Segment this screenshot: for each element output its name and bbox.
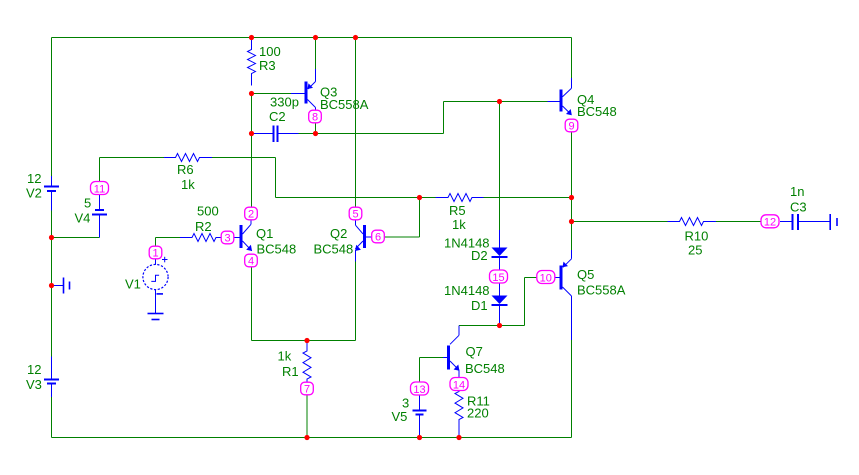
wire C2 row [299,133,444,135]
junction dot V2 bottom [49,235,54,240]
wire R6 row left [100,157,165,159]
svg-text:3: 3 [224,233,230,245]
resistor R10 [668,218,717,226]
node 5 [349,207,362,220]
junction dot R1 top [304,338,309,343]
node 12 [761,215,779,228]
wire Q5 collector to bottom rail [571,340,573,438]
resistor R5 [436,194,484,202]
wire D2 feed column [499,102,501,231]
wire Q2 emitter down [355,262,357,341]
svg-text:V5: V5 [392,409,408,424]
svg-text:1k: 1k [278,349,292,364]
node 9 [565,119,578,132]
node 1 [149,246,162,259]
svg-text:4: 4 [248,256,254,268]
wire Q4 emitter to Q5 [571,132,573,198]
node 13 [411,382,429,395]
wire Q7 collector row [459,325,525,327]
svg-text:5: 5 [352,209,358,221]
wire bottom rail [52,437,572,439]
terminal pin right [830,214,837,230]
svg-text:12: 12 [764,217,776,229]
junction dot V5 bottom [417,435,422,440]
diode D1 [492,283,508,326]
svg-text:V4: V4 [75,211,91,226]
ground [148,314,164,320]
resistor R2 [180,234,221,242]
node 11 [91,182,109,195]
wire R1 to bottom rail [306,395,308,438]
svg-text:10: 10 [540,272,552,284]
wire Q3 emitter stub [315,38,317,70]
node 14 [450,378,468,391]
svg-text:R1: R1 [282,364,299,379]
svg-text:BC548: BC548 [577,104,617,119]
wire Q1 emitter down [251,267,253,341]
wire R6 to R5 link [275,158,277,198]
node 10 [537,271,555,284]
junction dot R11 bottom [456,435,461,440]
svg-text:R6: R6 [177,162,194,177]
svg-text:R5: R5 [449,203,466,218]
wire V2 to V4 link [52,237,100,239]
wire node 10 stub [525,277,539,279]
svg-text:8: 8 [312,112,318,124]
wire Q3 base branch [252,93,292,95]
junction dot top Q2 column [353,35,358,40]
svg-text:12: 12 [27,171,41,186]
terminal pin left [54,278,70,294]
capacitor C2 [254,126,299,143]
wire Q5 emitter feed [571,198,573,251]
svg-text:Q5: Q5 [577,267,594,282]
svg-text:100: 100 [259,44,281,59]
svg-text:220: 220 [467,406,489,421]
svg-text:V2: V2 [26,186,42,201]
wire R2 row [156,237,181,239]
capacitor C3 [780,214,830,230]
svg-text:2: 2 [248,209,254,221]
wire Q4 base row [444,101,548,103]
node 6 [372,230,385,243]
wire right column top [571,38,573,79]
svg-text:Q1: Q1 [256,226,273,241]
transistor Q2 [355,220,372,262]
svg-text:1k: 1k [452,217,466,232]
wire R10 row right [716,221,761,223]
wire Q7 base row [420,357,444,359]
junction dot R1 bottom [304,435,309,440]
svg-text:BC558A: BC558A [320,97,369,112]
wire left rail lower [51,397,53,438]
svg-text:C2: C2 [269,109,286,124]
svg-text:11: 11 [94,183,105,195]
wire V1 riser [155,238,157,247]
svg-text:1: 1 [152,248,158,260]
svg-text:V3: V3 [26,377,42,392]
transistor Q3 [291,69,316,111]
svg-text:R2: R2 [195,219,212,234]
junction dot node 8 [313,131,318,136]
svg-text:14: 14 [453,379,465,391]
junction dot C2 left [249,131,254,136]
wire riser C2 row to Q4 base row [443,102,445,134]
svg-text:500: 500 [197,204,219,219]
svg-text:13: 13 [413,384,425,396]
svg-text:6: 6 [375,232,381,244]
svg-text:12: 12 [27,362,41,377]
svg-text:330p: 330p [270,95,299,110]
junction dot R5 left [417,195,422,200]
svg-text:15: 15 [492,272,504,284]
transistor Q4 [548,78,572,115]
svg-text:BC548: BC548 [257,242,297,257]
junction dot D1 bottom [497,323,502,328]
junction dot Q3 base [249,91,254,96]
svg-text:C3: C3 [790,200,807,215]
wire node 10 riser [524,278,526,326]
junction dot left terminal [49,283,54,288]
svg-text:1k: 1k [181,177,195,192]
svg-text:Q2: Q2 [330,226,347,241]
wire node 13 riser [419,358,421,384]
wire V4 riser [99,158,101,182]
node 15 [490,270,508,283]
transistor Q1 [234,220,252,251]
wire top rail [52,37,572,39]
svg-text:V1: V1 [125,277,141,292]
node 2 [245,207,258,220]
resistor R1 [303,341,311,383]
resistor R6 [164,154,212,162]
node 8 [309,110,322,123]
transistor Q5 [554,250,572,340]
wire node 6 branch vertical [419,198,421,238]
resistor R11 [455,391,463,438]
svg-text:9: 9 [568,121,574,133]
wire left rail upper [51,38,53,177]
svg-text:7: 7 [304,384,310,396]
wire R3 to Q1 collector column [251,94,253,208]
wire R5 row right [484,197,572,199]
battery V4 [92,195,107,238]
node 4 [245,254,258,267]
svg-text:5: 5 [84,196,91,211]
junction dot R5 right [569,195,574,200]
node 3 [221,231,234,244]
wire node 6 branch horizontal [384,236,420,238]
svg-text:R3: R3 [259,58,276,73]
wire node 8 stub [315,123,317,134]
junction dot R10 left [569,219,574,224]
battery V3 [44,357,59,398]
wire R5 row left [276,197,436,199]
wire R6 row right [212,157,276,159]
svg-text:R10: R10 [685,229,709,244]
svg-text:BC548: BC548 [465,361,505,376]
svg-text:D1: D1 [471,298,488,313]
source V1 [143,257,168,314]
junction dot top R3 [249,35,254,40]
svg-text:BC558A: BC558A [577,283,626,298]
wire left rail middle [51,191,53,357]
junction dot top Q3 [313,35,318,40]
wire R10 row left [572,221,668,223]
battery V2 [44,176,59,211]
resistor R3 [248,40,256,86]
wire emitter run horizontal [252,340,356,342]
svg-text:1N4148: 1N4148 [444,283,490,298]
battery V5 [413,394,427,438]
svg-text:Q7: Q7 [466,344,483,359]
svg-text:25: 25 [688,243,702,258]
diode D2 [492,230,508,271]
svg-text:BC548: BC548 [314,242,354,257]
node 7 [301,382,314,395]
transistor Q7 [443,326,459,378]
svg-text:1n: 1n [790,184,804,199]
junction dot D2 feed [497,99,502,104]
wire Q2 collector column [355,38,357,208]
svg-text:D2: D2 [471,248,488,263]
